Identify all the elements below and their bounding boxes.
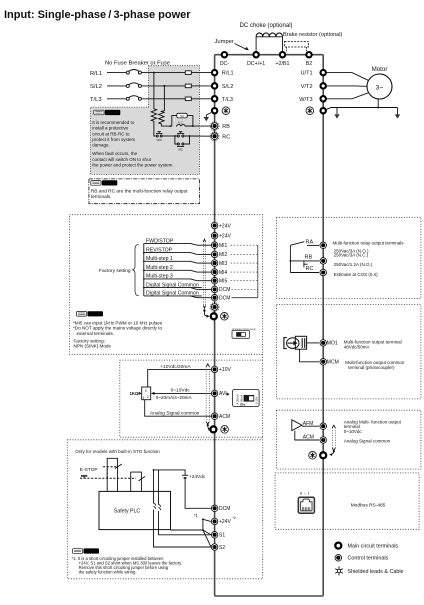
svg-text:ACM: ACM <box>219 414 230 420</box>
svg-text:terminal (photocoupler): terminal (photocoupler) <box>348 365 395 370</box>
svg-text:NPN (SINK) Mode: NPN (SINK) Mode <box>74 344 112 349</box>
svg-text:DC+/+1: DC+/+1 <box>247 61 265 67</box>
svg-text:T/L3: T/L3 <box>222 97 233 103</box>
svg-text:T/L3: T/L3 <box>90 97 102 103</box>
svg-text:the safety function while wiri: the safety function while wiring. <box>79 570 137 575</box>
svg-text:ACI: ACI <box>240 402 245 406</box>
svg-text:MC: MC <box>179 148 183 152</box>
svg-text:Only for models with built-in: Only for models with built-in STO functi… <box>75 449 160 454</box>
svg-text:Analog Signal common: Analog Signal common <box>150 410 200 416</box>
svg-text:damage.: damage. <box>92 143 110 148</box>
svg-text:Multi-step 2: Multi-step 2 <box>146 265 173 271</box>
svg-text:1: 1 <box>143 396 145 400</box>
svg-text:Jumper: Jumper <box>215 39 234 45</box>
svg-text:0-10V: 0-10V <box>254 397 258 405</box>
svg-text:Safety PLC: Safety PLC <box>114 509 140 515</box>
svg-text:0~20mA/4~20mA: 0~20mA/4~20mA <box>156 395 193 400</box>
svg-text:Shielded leads & Cable: Shielded leads & Cable <box>348 569 404 575</box>
svg-text:protect it from system: protect it from system <box>92 137 135 142</box>
svg-text:8 ← 1: 8 ← 1 <box>300 491 310 495</box>
svg-text:3~: 3~ <box>376 84 384 91</box>
svg-text:DCM: DCM <box>219 287 230 293</box>
svg-text:S2: S2 <box>219 545 225 551</box>
svg-text:DC-: DC- <box>220 61 230 67</box>
svg-text:250Vac/3A (N.C.): 250Vac/3A (N.C.) <box>334 253 369 258</box>
svg-text:*2: *2 <box>233 516 236 520</box>
svg-text:E-STOP: E-STOP <box>80 467 98 473</box>
svg-text:V/T2: V/T2 <box>301 84 313 90</box>
svg-text:+24V: +24V <box>219 519 231 525</box>
svg-text:RA: RA <box>306 240 314 246</box>
svg-text:U/T1: U/T1 <box>300 71 312 77</box>
svg-text:SA: SA <box>180 114 184 118</box>
svg-text:+24Vdc: +24Vdc <box>189 474 206 480</box>
svg-text:Modbus RS-485: Modbus RS-485 <box>351 503 386 509</box>
svg-text:R/L1: R/L1 <box>90 71 102 77</box>
svg-text:250Vac/1.2A (N.O.): 250Vac/1.2A (N.O.) <box>334 262 373 267</box>
svg-text:0~10Vdc: 0~10Vdc <box>344 429 363 434</box>
svg-text:MI4: MI4 <box>219 270 228 276</box>
svg-text:Multi-function relay output te: Multi-function relay output terminals <box>333 240 405 245</box>
svg-text:install a protective: install a protective <box>92 126 129 131</box>
svg-text:DC choke (optional): DC choke (optional) <box>240 23 293 29</box>
svg-text:Input: Single-phase / 3-phase: Input: Single-phase / 3-phase power <box>4 9 191 21</box>
svg-text:DCM: DCM <box>219 506 230 512</box>
svg-text:RC: RC <box>306 266 314 272</box>
svg-text:OFF: OFF <box>157 138 163 142</box>
svg-text:3: 3 <box>145 389 147 393</box>
svg-text:S/L2: S/L2 <box>90 84 102 90</box>
svg-text:MI2: MI2 <box>219 252 228 258</box>
svg-text:Factory setting: Factory setting <box>99 268 131 274</box>
svg-text:RC: RC <box>222 134 230 140</box>
svg-text:S1: S1 <box>219 533 225 539</box>
svg-text:RB and RC are the multi-functi: RB and RC are the multi-function relay o… <box>91 189 188 195</box>
svg-text:Digital Signal Common: Digital Signal Common <box>146 282 199 288</box>
svg-text:1KΩ: 1KΩ <box>130 391 139 396</box>
svg-text:the power and protect the powe: the power and protect the power system. <box>92 162 173 167</box>
svg-text:contact will switch ON to shut: contact will switch ON to shut <box>92 157 151 162</box>
svg-text:MO1: MO1 <box>327 341 338 347</box>
svg-text:Control terminals: Control terminals <box>348 556 389 562</box>
svg-text:terminals.: terminals. <box>91 194 112 200</box>
svg-text:S/L2: S/L2 <box>222 84 234 90</box>
svg-text:+24V: +24V <box>219 223 231 229</box>
svg-text:RB: RB <box>305 254 313 260</box>
svg-text:FWD/STOP: FWD/STOP <box>146 238 174 244</box>
svg-text:MI3: MI3 <box>219 261 228 267</box>
svg-text:REV/STOP: REV/STOP <box>146 248 173 254</box>
svg-text:+24V: +24V <box>219 234 231 240</box>
svg-text:It is recommended to: It is recommended to <box>92 120 135 125</box>
svg-text:RB: RB <box>222 124 230 130</box>
svg-text:Multi-step 3: Multi-step 3 <box>146 274 173 280</box>
svg-text:B2: B2 <box>306 61 313 67</box>
svg-text:W/T3: W/T3 <box>299 97 312 103</box>
svg-text:Multi-step 1: Multi-step 1 <box>146 256 173 262</box>
svg-text:48Vdc/50mA: 48Vdc/50mA <box>344 344 370 349</box>
svg-text:MCM: MCM <box>327 360 339 366</box>
svg-text:circuit at RB-RC to: circuit at RB-RC to <box>92 131 130 136</box>
svg-text:Estimate at COS (0.4): Estimate at COS (0.4) <box>334 272 379 277</box>
svg-text:0~10Vdc: 0~10Vdc <box>171 388 191 394</box>
svg-text:Analog Signal common: Analog Signal common <box>344 439 391 444</box>
svg-text:Motor: Motor <box>372 66 388 73</box>
svg-text:AVI: AVI <box>219 391 227 397</box>
svg-text:+2/B1: +2/B1 <box>276 61 290 67</box>
svg-text:When fault occurs, the: When fault occurs, the <box>92 151 137 156</box>
svg-text:Main circuit terminals: Main circuit terminals <box>348 544 399 550</box>
svg-text:AFM: AFM <box>303 421 314 427</box>
svg-text:MI1: MI1 <box>219 243 228 249</box>
svg-text:DCM: DCM <box>219 296 230 302</box>
svg-text:N.C.: N.C. <box>178 121 184 125</box>
svg-text:MI5: MI5 <box>219 279 228 285</box>
svg-text:Brake resistor (optional): Brake resistor (optional) <box>283 32 343 38</box>
svg-text:Digital Signal Common: Digital Signal Common <box>146 291 199 297</box>
svg-text:external terminals.: external terminals. <box>77 331 115 336</box>
svg-text:ACM: ACM <box>303 435 314 441</box>
svg-text:No Fuse Breaker or Fuse: No Fuse Breaker or Fuse <box>105 60 170 66</box>
svg-text:R/L1: R/L1 <box>222 71 234 77</box>
svg-text:2: 2 <box>147 395 149 399</box>
svg-text:+10V: +10V <box>219 367 231 373</box>
svg-text:*1: *1 <box>194 513 199 518</box>
